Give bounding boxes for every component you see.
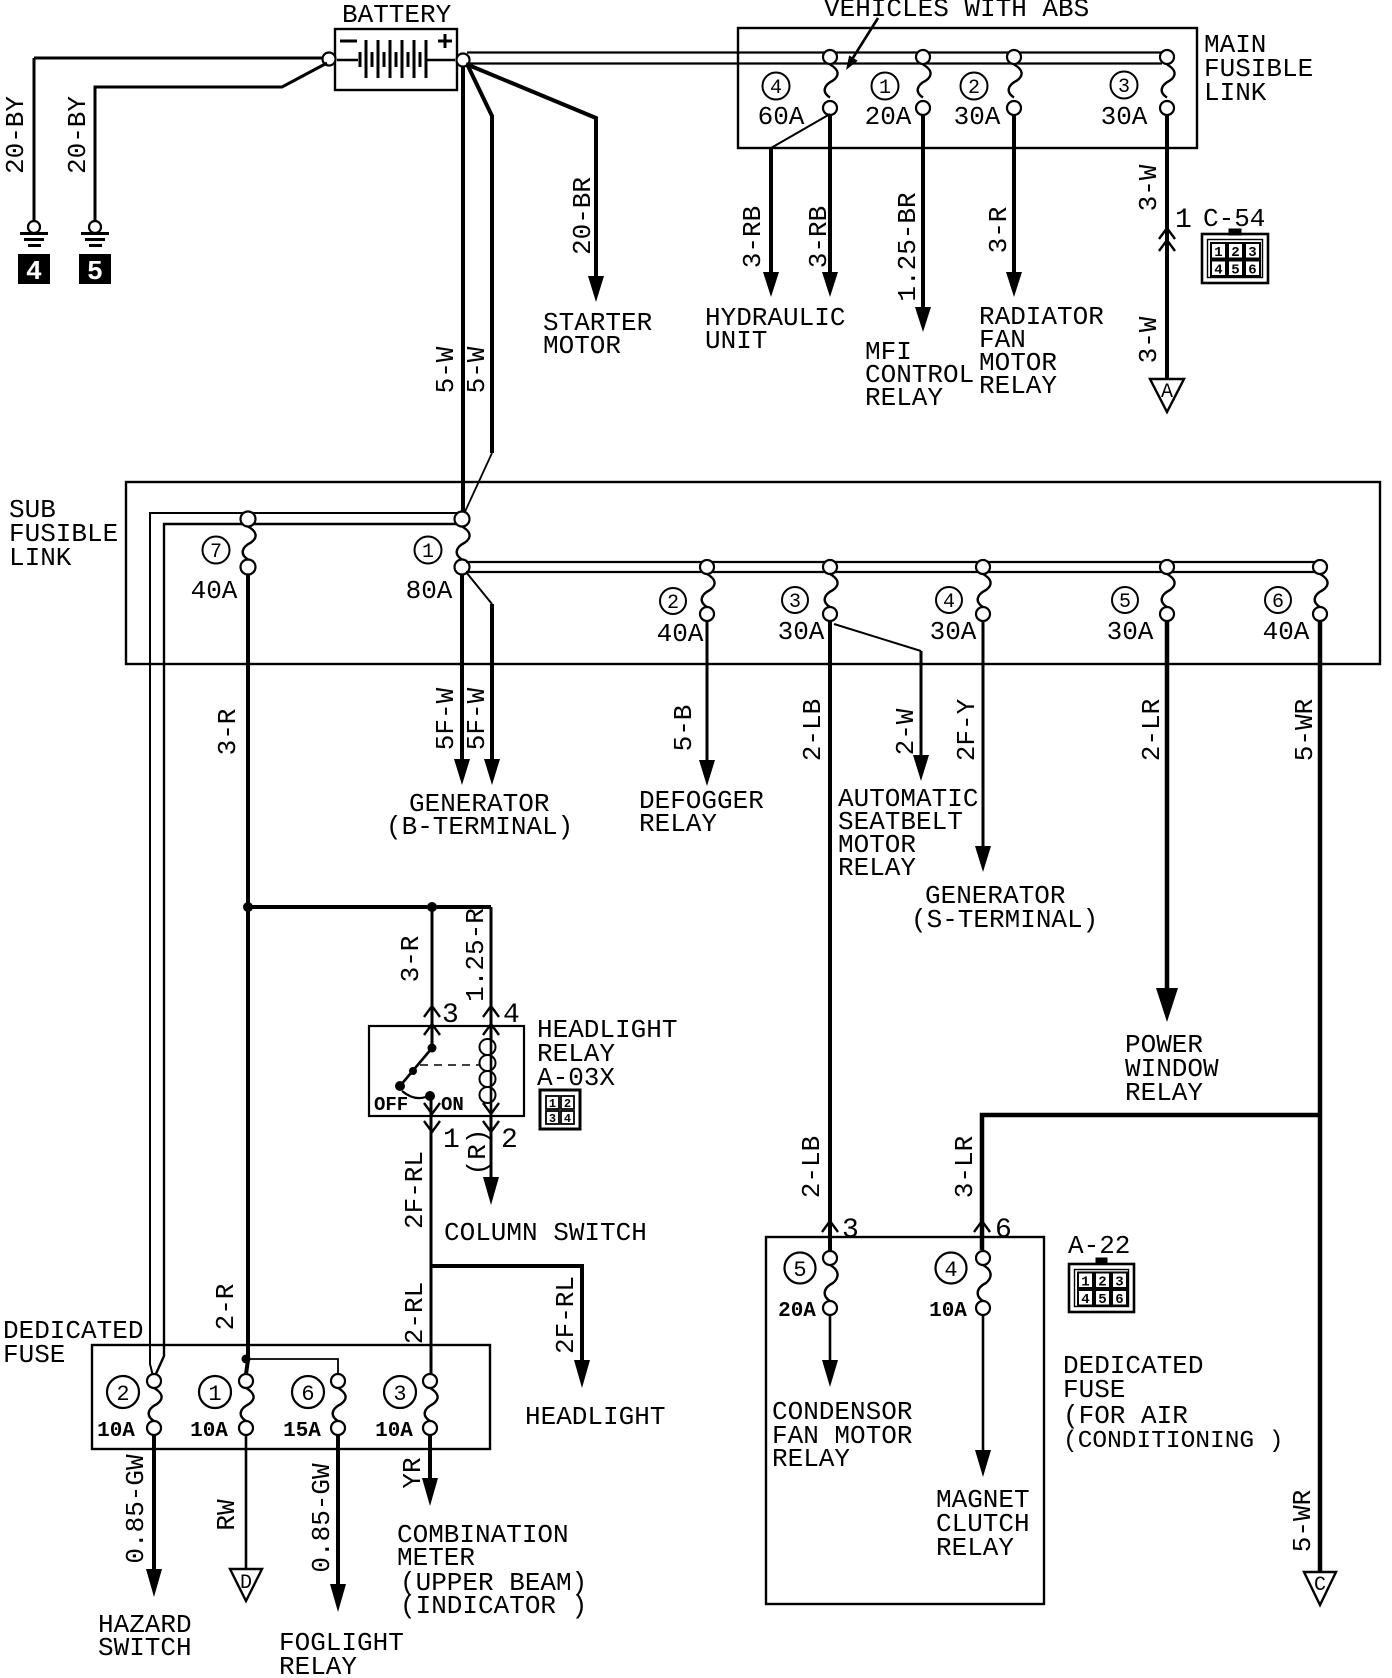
battery B1 bbox=[323, 29, 470, 90]
fuse 2 40A sub bbox=[657, 560, 715, 649]
wire 5-WR down right side bbox=[1318, 621, 1323, 1572]
relay coil bbox=[480, 1039, 496, 1116]
wire R to column switch bbox=[490, 1116, 493, 1181]
svg-text:RELAY: RELAY bbox=[1125, 1078, 1203, 1108]
pin 3 chevron bbox=[822, 1221, 838, 1232]
svg-text:30A: 30A bbox=[954, 102, 1001, 132]
svg-text:5: 5 bbox=[1231, 263, 1239, 279]
wire 3-R to relay pin 3 bbox=[431, 907, 434, 1048]
fuse 4 30A sub bbox=[930, 560, 991, 647]
svg-text:UNIT: UNIT bbox=[705, 326, 767, 356]
main fusible link box bbox=[738, 28, 1197, 148]
wire to condensor fan motor relay bbox=[829, 1315, 832, 1364]
svg-text:1: 1 bbox=[1081, 1275, 1089, 1291]
svg-text:1.25-R: 1.25-R bbox=[461, 908, 491, 1002]
svg-text:5-WR: 5-WR bbox=[1290, 699, 1320, 761]
svg-text:1: 1 bbox=[422, 541, 434, 564]
wire to magnet clutch relay bbox=[982, 1315, 985, 1454]
dedicated fuse box bbox=[92, 1345, 490, 1449]
svg-text:1.25-BR: 1.25-BR bbox=[893, 192, 923, 301]
fuse 5 20A aircon bbox=[778, 1251, 838, 1323]
svg-text:6: 6 bbox=[1248, 263, 1256, 279]
fuse 4 60A main bbox=[758, 50, 838, 132]
wire 2F-RL from relay pin 1 bbox=[430, 1116, 433, 1374]
svg-text:6: 6 bbox=[995, 1215, 1012, 1246]
wire RW to node D bbox=[245, 1435, 248, 1569]
wire 1.25-BR to MFI control relay bbox=[921, 115, 925, 311]
wire 3-W to connector A bbox=[1165, 115, 1169, 378]
wire 2-LR to power window relay bbox=[1165, 621, 1170, 992]
svg-text:VEHICLES WITH ABS: VEHICLES WITH ABS bbox=[824, 0, 1089, 24]
svg-text:30A: 30A bbox=[1101, 102, 1148, 132]
svg-text:5-B: 5-B bbox=[669, 705, 699, 752]
svg-text:3: 3 bbox=[1118, 76, 1130, 99]
junction node bbox=[427, 902, 437, 912]
wire 3-R from sub fuse 7 down bbox=[246, 574, 250, 907]
svg-text:6: 6 bbox=[1115, 1292, 1123, 1308]
svg-text:7: 7 bbox=[210, 541, 222, 564]
svg-text:3: 3 bbox=[393, 1382, 406, 1407]
svg-text:10A: 10A bbox=[97, 1420, 135, 1443]
wire 1.25-R to relay pin 4 bbox=[490, 907, 493, 1040]
svg-text:30A: 30A bbox=[930, 617, 977, 647]
wire 2-R continues to dedicated fuse 1 bbox=[246, 907, 248, 1374]
svg-text:5-WR: 5-WR bbox=[1288, 1490, 1318, 1552]
svg-text:2: 2 bbox=[501, 1125, 518, 1156]
ground 4 bbox=[20, 221, 48, 246]
wire 5-W second battery to sub fusible link bbox=[467, 64, 492, 453]
svg-text:RELAY: RELAY bbox=[865, 383, 943, 413]
svg-text:3-R: 3-R bbox=[213, 709, 243, 756]
svg-text:2: 2 bbox=[1098, 1275, 1106, 1291]
svg-text:2-LB: 2-LB bbox=[797, 1136, 827, 1198]
svg-text:3-RB: 3-RB bbox=[804, 206, 834, 268]
svg-text:80A: 80A bbox=[406, 576, 453, 606]
svg-text:5-W: 5-W bbox=[462, 346, 492, 393]
fuse 3 30A main bbox=[1101, 50, 1175, 132]
svg-text:3: 3 bbox=[1248, 245, 1256, 261]
wire battery negative to ground 5 bbox=[95, 63, 327, 221]
svg-text:1: 1 bbox=[1175, 205, 1192, 236]
svg-text:2F-RL: 2F-RL bbox=[400, 1151, 430, 1229]
ground 5 bbox=[81, 221, 109, 246]
fuse 6 40A sub bbox=[1263, 560, 1328, 647]
svg-text:0.85-GW: 0.85-GW bbox=[307, 1463, 337, 1573]
svg-text:BATTERY: BATTERY bbox=[342, 0, 452, 30]
svg-text:40A: 40A bbox=[1263, 617, 1310, 647]
svg-text:(INDICATOR ): (INDICATOR ) bbox=[400, 1591, 587, 1621]
junction node on 2-R feed bbox=[242, 1355, 251, 1364]
pin 3 chevrons bbox=[424, 1006, 440, 1017]
connector C-54 bbox=[1202, 229, 1268, 283]
svg-text:2-R: 2-R bbox=[211, 1284, 241, 1331]
wire YR to combination meter bbox=[428, 1435, 432, 1482]
svg-text:2F-RL: 2F-RL bbox=[551, 1276, 581, 1354]
svg-text:C: C bbox=[1314, 1574, 1326, 1597]
fuse 3 10A dedicated bbox=[375, 1374, 438, 1443]
svg-text:4: 4 bbox=[944, 1258, 957, 1283]
fuse 3 30A sub bbox=[778, 560, 838, 647]
wire 2F-RL branch to headlight bbox=[431, 1266, 582, 1364]
wire 5-W battery to sub fusible link bbox=[461, 67, 465, 513]
svg-text:2: 2 bbox=[667, 592, 679, 615]
svg-text:15A: 15A bbox=[283, 1420, 321, 1443]
svg-text:5: 5 bbox=[1098, 1292, 1106, 1308]
svg-text:3-RB: 3-RB bbox=[738, 206, 768, 268]
wire 3-LR branch to A-22 pin 6 bbox=[982, 1115, 1318, 1250]
svg-text:5: 5 bbox=[1119, 591, 1131, 614]
fuse 4 10A aircon bbox=[929, 1251, 991, 1323]
pin 2 chevrons bbox=[483, 1103, 499, 1114]
svg-text:40A: 40A bbox=[657, 619, 704, 649]
svg-text:RW: RW bbox=[212, 1499, 242, 1531]
svg-text:COLUMN SWITCH: COLUMN SWITCH bbox=[444, 1218, 647, 1248]
svg-text:20-BY: 20-BY bbox=[1, 96, 31, 174]
svg-text:1: 1 bbox=[443, 1125, 460, 1156]
wire battery positive bus to main fusible link bbox=[467, 51, 1167, 53]
fuse 1 10A dedicated bbox=[190, 1374, 254, 1443]
svg-text:20-BY: 20-BY bbox=[63, 96, 93, 174]
svg-text:A: A bbox=[1161, 381, 1173, 404]
svg-text:4: 4 bbox=[770, 77, 782, 100]
svg-text:RELAY: RELAY bbox=[772, 1444, 850, 1474]
svg-text:30A: 30A bbox=[778, 617, 825, 647]
svg-text:20A: 20A bbox=[778, 1300, 816, 1323]
svg-text:40A: 40A bbox=[191, 576, 238, 606]
svg-text:(R): (R) bbox=[463, 1129, 493, 1176]
svg-text:HEADLIGHT: HEADLIGHT bbox=[525, 1402, 665, 1432]
svg-text:4: 4 bbox=[564, 1112, 571, 1126]
air conditioning dedicated fuse box bbox=[766, 1237, 1044, 1604]
harness crossing chevrons on 3-W bbox=[1159, 228, 1175, 239]
junction node bbox=[243, 902, 253, 912]
svg-text:1: 1 bbox=[549, 1097, 556, 1111]
svg-text:5-W: 5-W bbox=[431, 346, 461, 393]
svg-text:10A: 10A bbox=[375, 1420, 413, 1443]
svg-text:1: 1 bbox=[208, 1382, 221, 1407]
wire 5F-W to generator B-terminal right bbox=[466, 572, 492, 604]
svg-text:2-LB: 2-LB bbox=[798, 699, 828, 761]
svg-text:LINK: LINK bbox=[1204, 78, 1267, 108]
node D triangle bbox=[230, 1569, 262, 1601]
fuse 2 30A main bbox=[954, 50, 1022, 132]
svg-text:A-22: A-22 bbox=[1068, 1231, 1130, 1261]
svg-text:3-W: 3-W bbox=[1134, 316, 1164, 363]
bus row2 upper wire bbox=[466, 561, 1320, 563]
node A triangle bbox=[1150, 379, 1184, 412]
svg-text:10A: 10A bbox=[929, 1300, 967, 1323]
svg-text:4: 4 bbox=[1081, 1292, 1089, 1308]
svg-text:2: 2 bbox=[1231, 245, 1239, 261]
wire 5F-W to generator B-terminal left bbox=[460, 574, 464, 763]
wire 2-LB from sub fuse 3 to A-22 pin 3 bbox=[828, 621, 832, 1250]
svg-text:4: 4 bbox=[26, 258, 42, 288]
headlight relay A-03X box bbox=[369, 1026, 524, 1116]
pin 1 chevrons bbox=[424, 1103, 440, 1114]
svg-text:4: 4 bbox=[943, 591, 955, 614]
fuse 5 30A sub bbox=[1107, 560, 1175, 647]
svg-text:60A: 60A bbox=[758, 102, 805, 132]
svg-text:(B-TERMINAL): (B-TERMINAL) bbox=[386, 812, 573, 842]
svg-text:10A: 10A bbox=[190, 1420, 228, 1443]
svg-text:3: 3 bbox=[549, 1112, 556, 1126]
svg-text:5: 5 bbox=[793, 1258, 806, 1283]
connector A-03X pin grid bbox=[540, 1090, 580, 1129]
svg-text:5F-W: 5F-W bbox=[462, 687, 492, 750]
svg-text:MOTOR: MOTOR bbox=[543, 331, 621, 361]
svg-text:2: 2 bbox=[116, 1382, 129, 1407]
bus row1 upper wire bbox=[150, 513, 462, 1376]
fuse 1 20A main bbox=[865, 50, 931, 132]
svg-text:3: 3 bbox=[1115, 1275, 1123, 1291]
wire 5-B to defogger relay bbox=[706, 621, 709, 764]
svg-text:3-R: 3-R bbox=[396, 936, 426, 983]
svg-text:(S-TERMINAL): (S-TERMINAL) bbox=[911, 905, 1098, 935]
svg-text:20A: 20A bbox=[865, 102, 912, 132]
svg-text:2: 2 bbox=[564, 1097, 571, 1111]
ground reference square 5 bbox=[79, 254, 111, 284]
svg-text:2: 2 bbox=[968, 77, 980, 100]
wire 3-RB to hydraulic unit right bbox=[828, 115, 832, 276]
fuse 7 40A sub bbox=[191, 512, 256, 607]
fuse 6 15A dedicated bbox=[283, 1374, 346, 1443]
svg-text:(FOR AIR: (FOR AIR bbox=[1063, 1401, 1188, 1431]
wire 2F-Y to generator S-terminal bbox=[982, 621, 985, 850]
svg-text:3-W: 3-W bbox=[1134, 164, 1164, 211]
ground reference square 4 bbox=[18, 254, 50, 284]
wire 2-W to automatic seatbelt motor relay bbox=[834, 624, 921, 651]
svg-text:2-RL: 2-RL bbox=[400, 1282, 430, 1344]
wire branch to headlight relay bbox=[248, 905, 491, 909]
svg-text:ON: ON bbox=[441, 1094, 464, 1116]
wire 3-RB to hydraulic unit left bbox=[771, 114, 830, 148]
relay switch contacts bbox=[374, 1044, 480, 1117]
svg-text:6: 6 bbox=[1272, 591, 1284, 614]
svg-text:0.85-GW: 0.85-GW bbox=[121, 1454, 151, 1564]
svg-text:FUSE: FUSE bbox=[3, 1340, 65, 1370]
svg-text:2-LR: 2-LR bbox=[1137, 699, 1167, 761]
svg-text:SWITCH: SWITCH bbox=[98, 1633, 192, 1663]
svg-text:6: 6 bbox=[301, 1382, 314, 1407]
svg-text:4: 4 bbox=[1214, 263, 1222, 279]
svg-text:1: 1 bbox=[1214, 245, 1222, 261]
wire battery negative to ground 4 bbox=[34, 57, 323, 60]
svg-text:OFF: OFF bbox=[374, 1094, 408, 1116]
svg-text:RELAY: RELAY bbox=[279, 1652, 357, 1678]
fuse 1 80A sub bbox=[406, 512, 470, 607]
svg-text:5F-W: 5F-W bbox=[431, 687, 461, 750]
svg-text:1: 1 bbox=[879, 77, 891, 100]
bus row2 lower wire bbox=[466, 571, 1316, 573]
svg-text:2F-Y: 2F-Y bbox=[952, 698, 982, 761]
fuse 2 10A dedicated bbox=[97, 1374, 162, 1443]
svg-text:3: 3 bbox=[789, 591, 801, 614]
svg-text:3-R: 3-R bbox=[984, 207, 1014, 254]
svg-text:RELAY: RELAY bbox=[936, 1533, 1014, 1563]
sub fusible link box bbox=[126, 482, 1380, 664]
svg-text:5: 5 bbox=[87, 258, 103, 288]
wire 0.85-GW to hazard switch bbox=[152, 1435, 156, 1573]
svg-text:20-BR: 20-BR bbox=[568, 177, 598, 255]
wire branch to fuse 6 bbox=[246, 1359, 338, 1374]
svg-text:(CONDITIONING ): (CONDITIONING ) bbox=[1063, 1428, 1284, 1455]
node C triangle bbox=[1304, 1572, 1336, 1605]
pin 4 chevrons bbox=[483, 1006, 499, 1017]
wire 3-R to radiator fan motor relay bbox=[1012, 115, 1016, 276]
svg-text:D: D bbox=[240, 1572, 252, 1595]
svg-text:RELAY: RELAY bbox=[639, 809, 717, 839]
wire 0.85-GW to foglight relay bbox=[336, 1435, 340, 1588]
bus row1 lower wire bbox=[155, 524, 460, 1376]
svg-text:YR: YR bbox=[398, 1457, 428, 1488]
svg-text:3: 3 bbox=[842, 1215, 859, 1246]
svg-text:30A: 30A bbox=[1107, 617, 1154, 647]
svg-text:LINK: LINK bbox=[9, 543, 72, 573]
wire 20-BR to starter motor bbox=[466, 64, 596, 280]
pin 6 chevron bbox=[974, 1221, 990, 1232]
svg-text:RELAY: RELAY bbox=[979, 371, 1057, 401]
svg-text:RELAY: RELAY bbox=[838, 853, 916, 883]
svg-text:2-W: 2-W bbox=[891, 708, 921, 755]
connector A-22 bbox=[1069, 1258, 1134, 1312]
svg-text:3-LR: 3-LR bbox=[950, 1136, 980, 1198]
